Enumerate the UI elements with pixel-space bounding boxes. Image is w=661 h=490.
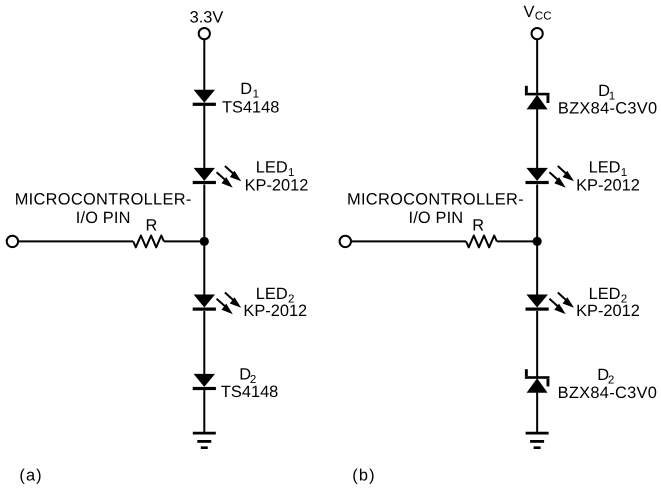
svg-text:(a): (a) [19, 467, 42, 485]
svg-text:R: R [146, 216, 158, 234]
wire: LED2 cathode to D2 cathode (b) [536, 311, 538, 378]
svg-text:MICROCONTROLLER-: MICROCONTROLLER- [15, 191, 192, 209]
svg-text:R: R [472, 216, 484, 234]
LED LED2 (a) [194, 295, 215, 308]
svg-text:TS4148: TS4148 [222, 99, 279, 117]
svg-text:LED: LED [589, 159, 621, 177]
LED LED1 (a) [194, 168, 215, 181]
wire: supply to D1 cathode (b) [536, 39, 538, 94]
resistor R (b) [466, 236, 497, 248]
svg-text:TS4148: TS4148 [221, 383, 278, 401]
zener diode D2 (b) [525, 376, 550, 379]
svg-text:KP-2012: KP-2012 [243, 302, 307, 320]
svg-text:KP-2012: KP-2012 [576, 176, 640, 194]
LED LED2 (b) [526, 295, 548, 308]
svg-text:3.3V: 3.3V [190, 8, 224, 26]
junction node (a) [200, 237, 209, 246]
wire: junction to LED2 anode (b) [536, 241, 538, 295]
svg-text:BZX84-C3V0: BZX84-C3V0 [558, 100, 658, 118]
diode D2 (a) [194, 374, 215, 387]
svg-text:I/O PIN: I/O PIN [76, 209, 131, 227]
LED1 emission arrows (a) [225, 166, 234, 174]
svg-text:KP-2012: KP-2012 [245, 176, 309, 194]
svg-text:BZX84-C3V0: BZX84-C3V0 [558, 384, 658, 402]
input terminal (b) [340, 236, 351, 247]
wire: LED1 cathode to junction (a) [203, 185, 205, 242]
ground (a) [193, 432, 216, 435]
wire: input terminal to resistor R (a) [19, 240, 133, 242]
wire: junction to LED2 anode (a) [203, 241, 205, 295]
svg-text:LED: LED [589, 285, 621, 303]
input terminal (a) [7, 236, 18, 247]
svg-text:LED: LED [256, 285, 288, 303]
wire: D2 anode to ground (b) [536, 392, 538, 433]
wire: LED2 cathode to D2 anode (a) [203, 311, 205, 375]
LED LED1 (b) [526, 168, 548, 181]
supply terminal (b) [532, 28, 543, 39]
svg-text:D: D [240, 80, 252, 98]
zener diode D1 (b) [525, 93, 550, 96]
svg-text:(b): (b) [352, 467, 375, 485]
diode D1 (a) [194, 90, 215, 103]
svg-text:MICROCONTROLLER-: MICROCONTROLLER- [347, 191, 524, 209]
wire: D1 cathode to LED1 anode (a) [203, 106, 205, 169]
svg-text:LED: LED [256, 159, 288, 177]
junction node (b) [533, 237, 542, 246]
svg-text:V: V [524, 3, 535, 21]
LED2 emission arrows (a) [225, 293, 234, 301]
wire: D2 cathode to ground (a) [203, 390, 205, 433]
LED1 emission arrows (b) [558, 166, 567, 174]
wire: input terminal to resistor R (b) [352, 240, 466, 242]
wire: D1 anode to LED1 anode (b) [536, 109, 538, 169]
LED2 emission arrows (b) [558, 293, 567, 301]
wire: resistor to junction (b) [497, 240, 537, 242]
wire: resistor to junction (a) [164, 240, 204, 242]
wire: supply to D1 anode (a) [203, 39, 205, 90]
ground (b) [526, 432, 549, 435]
supply terminal (a) [199, 28, 210, 39]
svg-text:KP-2012: KP-2012 [576, 302, 640, 320]
resistor R (a) [133, 236, 164, 248]
svg-text:I/O PIN: I/O PIN [409, 209, 464, 227]
svg-text:CC: CC [535, 11, 552, 23]
wire: LED1 cathode to junction (b) [536, 185, 538, 242]
